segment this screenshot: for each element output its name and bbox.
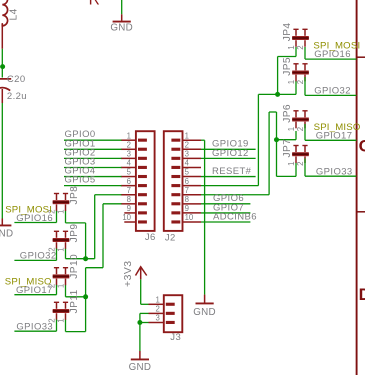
net GPIO4 wire <box>64 176 122 178</box>
svg-text:JP10: JP10 <box>69 254 80 279</box>
net RESET# wire <box>201 176 256 178</box>
ground (left, clipped) <box>0 219 13 240</box>
svg-text:2: 2 <box>296 45 305 49</box>
ground (below J3) <box>129 351 152 373</box>
net GPIO1 wire <box>64 148 122 150</box>
jumper JP8 <box>47 186 80 214</box>
svg-text:GPIO17: GPIO17 <box>16 285 53 296</box>
wire C20 to ground <box>1 103 3 219</box>
svg-text:GPIO33: GPIO33 <box>316 166 353 177</box>
svg-text:5: 5 <box>185 168 190 177</box>
svg-text:GND: GND <box>0 228 13 239</box>
svg-text:GPIO17: GPIO17 <box>316 130 353 141</box>
svg-text:1: 1 <box>287 80 296 84</box>
net SPI_MISO/GPIO17 (left) wire <box>14 285 56 295</box>
net GPIO0 wire <box>64 139 122 141</box>
svg-text:1: 1 <box>287 45 296 49</box>
svg-text:JP8: JP8 <box>69 186 80 205</box>
svg-text:GND: GND <box>129 362 152 373</box>
net J2 pin1 to GND wire <box>201 140 205 294</box>
wire J6 pin8 to JP10/JP11 spine <box>86 204 122 332</box>
svg-text:9: 9 <box>185 204 189 213</box>
svg-text:GPIO32: GPIO32 <box>20 251 57 262</box>
svg-text:2: 2 <box>296 127 305 131</box>
svg-text:6: 6 <box>127 177 131 186</box>
connector J3 <box>149 295 183 343</box>
inductor L4 <box>2 0 19 26</box>
svg-text:1: 1 <box>56 210 65 214</box>
svg-text:GPIO12: GPIO12 <box>212 148 249 159</box>
svg-text:1: 1 <box>287 162 296 166</box>
svg-text:3: 3 <box>156 314 160 323</box>
frame border right <box>357 0 365 375</box>
connector J2 <box>164 131 201 243</box>
net SPI_MISO/GPIO17 (right) wire <box>305 124 356 140</box>
jumper JP5 <box>282 57 309 84</box>
svg-text:J3: J3 <box>170 332 181 343</box>
wire JP9 pin1 drop <box>65 249 67 259</box>
net GPIO32 (left) wire <box>14 249 56 261</box>
ground (right of J3) <box>193 295 216 319</box>
svg-text:2: 2 <box>296 162 305 166</box>
svg-text:C: C <box>359 137 365 156</box>
capacitor C20 <box>0 74 27 103</box>
ground (top center) <box>110 14 133 33</box>
svg-text:2: 2 <box>127 140 131 149</box>
net GPIO2 wire <box>64 157 122 159</box>
svg-text:C20: C20 <box>7 74 26 85</box>
svg-text:L4: L4 <box>9 8 20 20</box>
wire L4 to C20 <box>1 49 3 78</box>
svg-text:JP7: JP7 <box>282 139 293 158</box>
svg-text:JP4: JP4 <box>282 23 293 42</box>
svg-text:3: 3 <box>185 149 189 158</box>
svg-text:1: 1 <box>56 284 65 288</box>
L4 pin <box>1 23 3 49</box>
net GPIO3 wire <box>64 166 122 168</box>
svg-text:JP9: JP9 <box>69 224 80 243</box>
svg-text:8: 8 <box>127 195 131 204</box>
svg-text:JP6: JP6 <box>282 104 293 123</box>
svg-text:4: 4 <box>185 159 190 168</box>
svg-text:6: 6 <box>185 177 189 186</box>
jumper JP10 <box>47 254 80 288</box>
svg-text:10: 10 <box>185 213 194 222</box>
junction dot2L <box>83 294 88 299</box>
wire JP10 pin1 drop <box>66 285 86 297</box>
svg-text:JP5: JP5 <box>282 57 293 76</box>
jumper JP11 <box>47 289 80 322</box>
svg-text:7: 7 <box>185 186 189 195</box>
net GPIO19 wire <box>201 148 256 150</box>
net GPIO32 (right) wire <box>305 77 356 95</box>
svg-text:J6: J6 <box>145 232 156 243</box>
jumper JP4 <box>282 23 309 50</box>
net GPIO33 (right) wire <box>305 159 356 177</box>
svg-text:1: 1 <box>56 247 65 251</box>
net GPIO12 wire <box>201 157 256 159</box>
svg-text:1: 1 <box>56 318 65 322</box>
svg-text:GPIO32: GPIO32 <box>314 85 351 96</box>
svg-text:2: 2 <box>156 305 160 314</box>
svg-text:D: D <box>359 285 365 304</box>
net J2 pin6 to JP4/JP5 <box>201 47 296 186</box>
svg-text:GPIO16: GPIO16 <box>16 213 53 224</box>
svg-text:GPIO33: GPIO33 <box>16 321 53 332</box>
svg-text:2: 2 <box>296 80 305 84</box>
svg-text:5: 5 <box>127 168 132 177</box>
svg-text:10: 10 <box>122 213 131 222</box>
svg-text:JP11: JP11 <box>69 289 80 313</box>
junction dot J3 pin3 <box>137 320 142 325</box>
svg-text:+3V3: +3V3 <box>123 260 134 287</box>
junction dot2 (JP6/JP7 net) <box>274 137 279 142</box>
net J2 pin7 to JP6/JP7 <box>201 112 296 195</box>
svg-text:4: 4 <box>127 159 132 168</box>
net GPIO33 (left) wire <box>14 320 56 332</box>
svg-text:1: 1 <box>127 131 131 140</box>
+3V3 supply symbol <box>123 260 147 287</box>
svg-text:7: 7 <box>127 186 131 195</box>
svg-text:ADCINB6: ADCINB6 <box>213 211 257 222</box>
wire spine to JP11 pin1 <box>66 320 86 332</box>
net SPI_MOSI/GPIO16 (left) wire <box>14 211 56 223</box>
svg-text:GND: GND <box>193 307 216 318</box>
net ADCINB6 wire <box>201 221 250 223</box>
svg-text:9: 9 <box>127 204 131 213</box>
jumper JP6 <box>282 104 309 131</box>
svg-text:R: R <box>89 0 100 9</box>
wire +3V3 to J3 pin1 <box>141 279 149 304</box>
jumper JP7 <box>282 139 309 166</box>
svg-text:1: 1 <box>156 295 160 304</box>
svg-text:2: 2 <box>185 140 189 149</box>
net GPIO6 wire <box>201 203 250 205</box>
svg-text:1: 1 <box>287 127 296 131</box>
net SPI_MOSI/GPIO16 (right) wire <box>305 47 356 59</box>
net GPIO7 wire <box>201 212 250 214</box>
net GPIO5 wire <box>64 185 122 187</box>
junction dot1L <box>83 256 88 261</box>
wire J6 pin7 to JP8/JP9 junction <box>66 195 122 259</box>
svg-text:GPIO5: GPIO5 <box>65 175 96 186</box>
connector J6 <box>121 131 156 243</box>
svg-text:1: 1 <box>185 131 189 140</box>
svg-text:2.2u: 2.2u <box>7 91 27 102</box>
svg-text:3: 3 <box>127 149 131 158</box>
jumper JP9 <box>47 224 80 252</box>
svg-text:GND: GND <box>110 22 133 33</box>
node junction on left wire <box>0 64 5 69</box>
svg-text:J2: J2 <box>165 232 176 243</box>
junction dot1 (JP4/JP5 net) <box>275 92 280 97</box>
wire J3 pin2/pin3 to GND <box>140 313 149 351</box>
svg-text:GPIO16: GPIO16 <box>314 49 351 60</box>
svg-text:RESET#: RESET# <box>212 166 252 177</box>
svg-text:8: 8 <box>185 195 189 204</box>
wire R to ground <box>121 0 123 14</box>
wire JP8 pin1 drop <box>66 211 86 259</box>
